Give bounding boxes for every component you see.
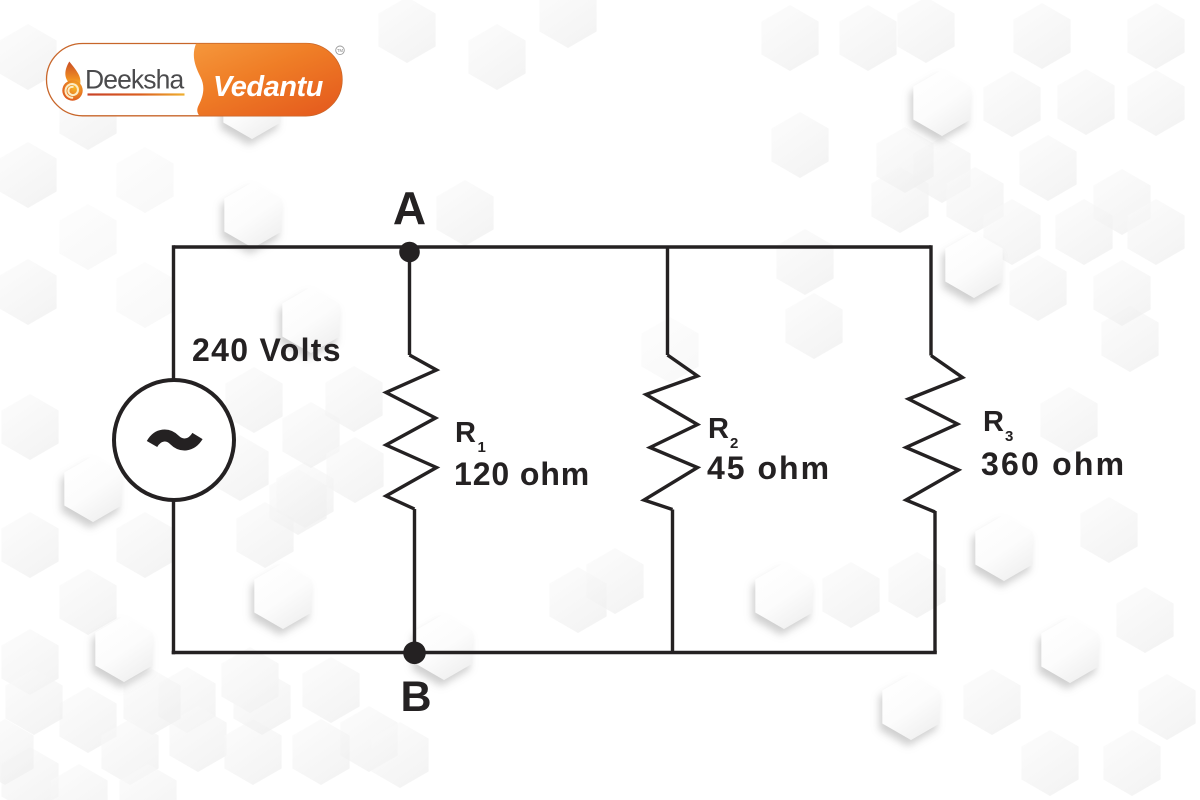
wire right upper <box>929 245 932 355</box>
node A <box>399 242 420 263</box>
wire left upper <box>172 245 175 380</box>
logo <box>47 44 345 116</box>
resistor R2 <box>644 355 698 510</box>
svg-text:120 ohm: 120 ohm <box>454 456 590 492</box>
svg-text:R: R <box>983 406 1004 438</box>
wire R2 branch upper <box>666 247 669 355</box>
svg-text:B: B <box>400 673 431 721</box>
svg-text:1: 1 <box>478 439 486 456</box>
svg-text:R: R <box>708 413 729 445</box>
wire right lower <box>933 511 936 653</box>
svg-text:Deeksha: Deeksha <box>85 65 184 95</box>
svg-text:45 ohm: 45 ohm <box>707 450 831 486</box>
wire bottom <box>172 651 937 654</box>
resistor R3 <box>906 356 963 513</box>
node B <box>403 642 426 665</box>
wire R1 branch upper <box>408 252 411 355</box>
svg-text:3: 3 <box>1005 428 1013 445</box>
svg-text:A: A <box>393 182 426 234</box>
svg-text:TM: TM <box>337 48 344 53</box>
resistor R1 <box>386 355 437 509</box>
svg-text:240 Volts: 240 Volts <box>192 332 342 368</box>
wire left lower <box>172 500 175 654</box>
svg-text:R: R <box>455 417 476 449</box>
wire top <box>174 245 932 248</box>
wire R2 branch lower <box>671 510 674 653</box>
svg-text:360 ohm: 360 ohm <box>981 446 1126 482</box>
AC source V1 <box>114 380 234 500</box>
wire R1 branch lower <box>413 509 416 653</box>
svg-text:Vedantu: Vedantu <box>213 71 324 103</box>
